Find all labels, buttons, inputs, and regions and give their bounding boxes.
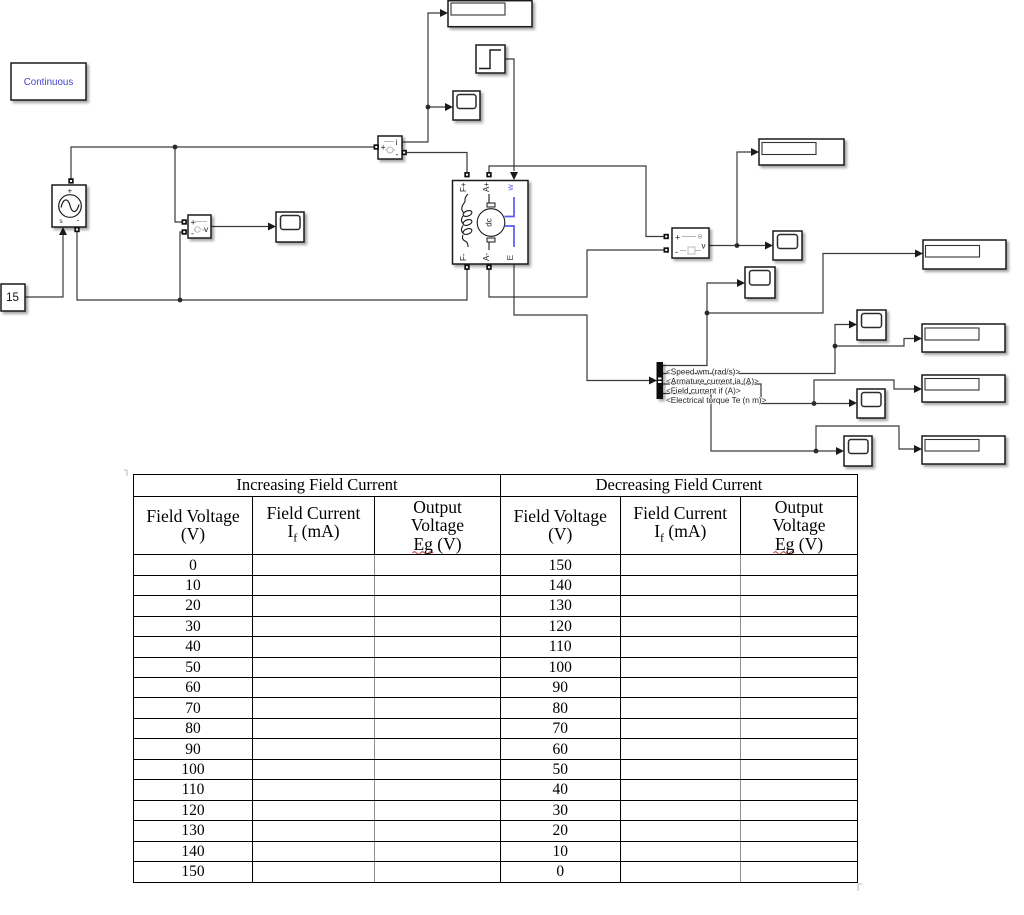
svg-text:w: w: [505, 184, 515, 192]
svg-text:Continuous: Continuous: [24, 77, 74, 88]
svg-text:+: +: [67, 186, 72, 195]
svg-text:+: +: [675, 233, 680, 243]
svg-text:i: i: [396, 138, 398, 147]
svg-text:<Field current if (A)>: <Field current if (A)>: [666, 387, 741, 396]
svg-text:-: -: [191, 229, 194, 239]
svg-text:15: 15: [6, 292, 19, 304]
svg-text:F+: F+: [459, 182, 468, 192]
svg-text:-: -: [675, 247, 678, 257]
svg-text:A-: A-: [482, 253, 491, 261]
svg-text:-: -: [396, 150, 399, 160]
svg-text:E: E: [505, 255, 515, 261]
svg-text:A+: A+: [482, 182, 491, 192]
svg-text:<Armature current ia (A)>: <Armature current ia (A)>: [666, 377, 759, 386]
svg-text:v: v: [702, 242, 706, 251]
svg-text:F-: F-: [459, 253, 468, 261]
svg-text:+: +: [381, 143, 386, 153]
svg-text:<Electrical torque Te (n m)>: <Electrical torque Te (n m)>: [666, 396, 767, 405]
svg-text:-: -: [77, 216, 80, 225]
svg-text:dc: dc: [485, 218, 494, 226]
svg-text:<Speed wm (rad/s)>: <Speed wm (rad/s)>: [666, 368, 740, 377]
svg-text:+: +: [191, 218, 196, 228]
